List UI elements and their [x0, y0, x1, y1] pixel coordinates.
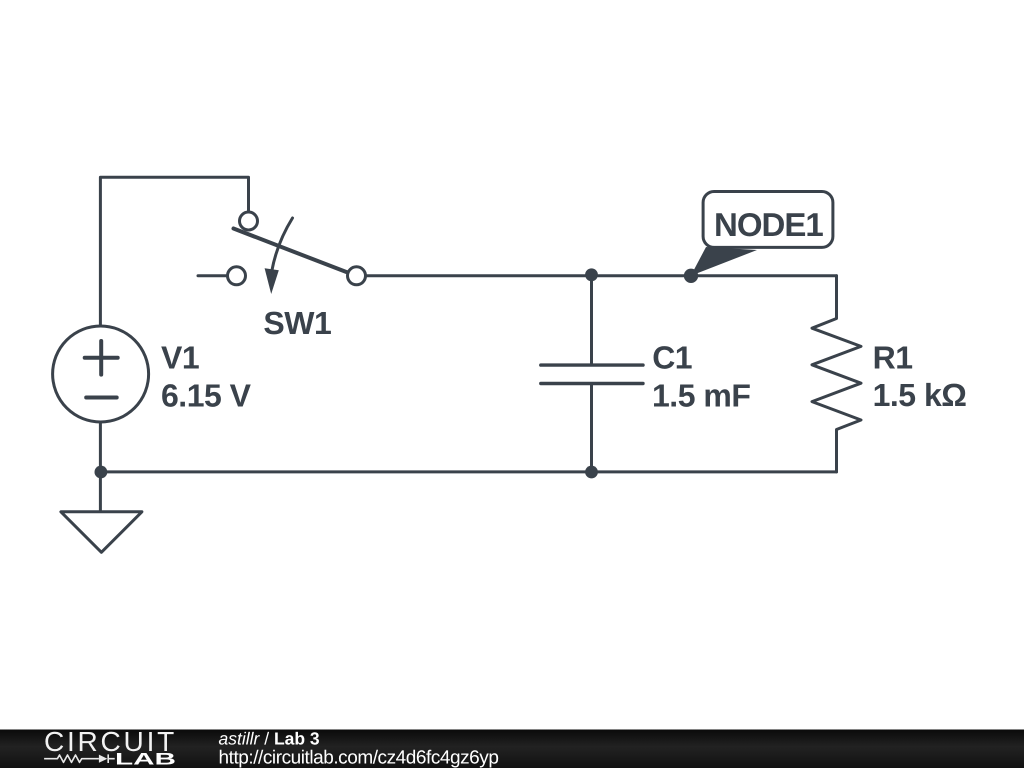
svg-text:R1: R1	[873, 340, 913, 376]
svg-text:C1: C1	[652, 340, 692, 376]
svg-text:astillr / Lab 3: astillr / Lab 3	[219, 729, 320, 749]
svg-text:V1: V1	[161, 340, 199, 376]
svg-text:6.15 V: 6.15 V	[161, 378, 252, 414]
svg-text:NODE1: NODE1	[714, 206, 823, 243]
svg-text:1.5 kΩ: 1.5 kΩ	[873, 377, 967, 413]
svg-text:SW1: SW1	[263, 305, 331, 341]
svg-text:LAB: LAB	[115, 750, 176, 768]
svg-text:1.5 mF: 1.5 mF	[652, 377, 750, 413]
svg-text:http://circuitlab.com/cz4d6fc4: http://circuitlab.com/cz4d6fc4gz6yp	[219, 747, 499, 768]
